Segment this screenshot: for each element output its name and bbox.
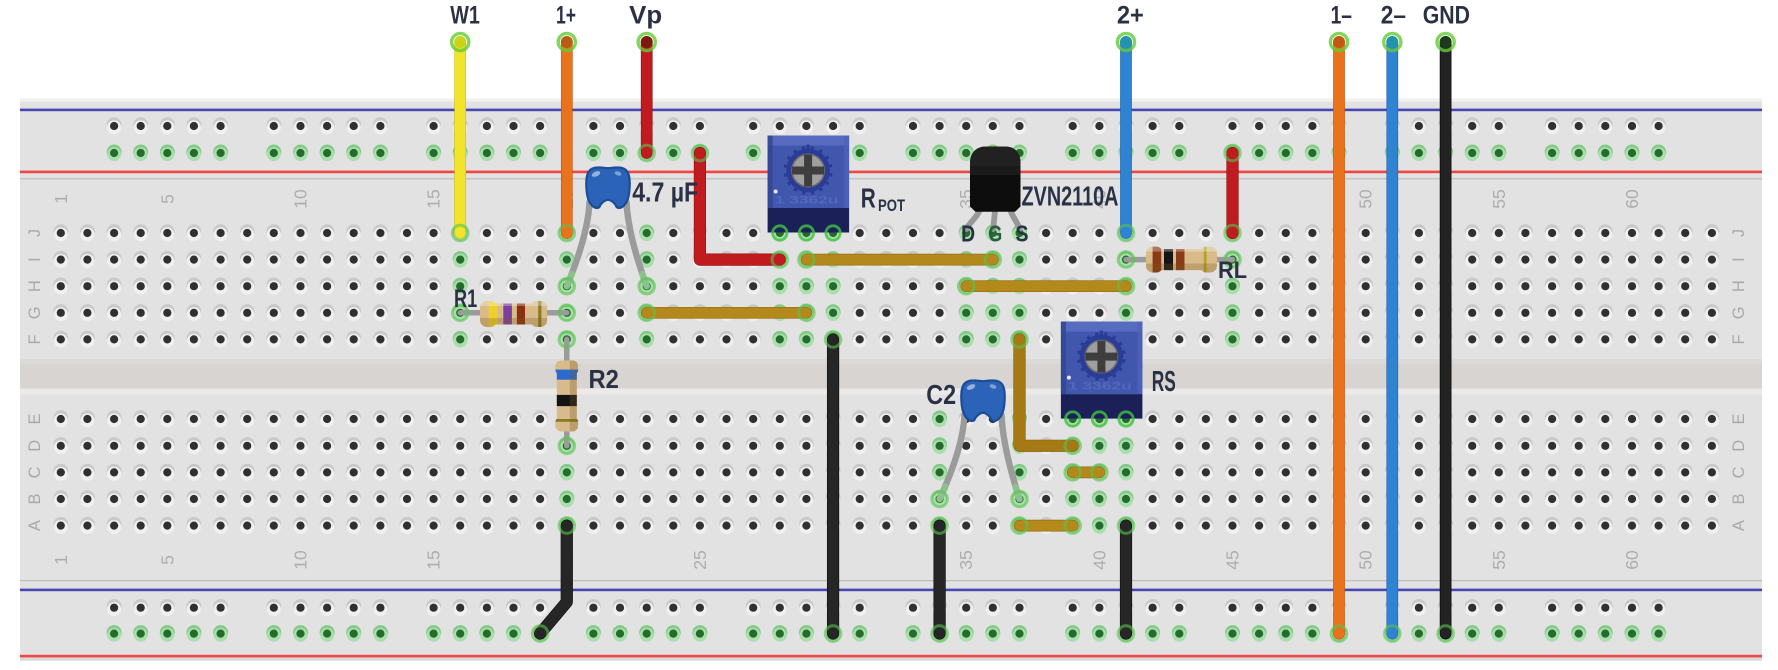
svg-text:15: 15	[424, 189, 444, 208]
svg-text:1 3362u: 1 3362u	[775, 195, 839, 207]
svg-text:RL: RL	[1218, 257, 1247, 284]
svg-text:2+: 2+	[1117, 1, 1144, 29]
svg-text:60: 60	[1622, 189, 1642, 209]
svg-text:55: 55	[1489, 550, 1509, 569]
svg-text:B: B	[1730, 493, 1748, 504]
svg-text:50: 50	[1356, 189, 1376, 209]
svg-text:5: 5	[157, 555, 177, 565]
svg-text:G: G	[26, 306, 44, 319]
svg-text:D: D	[26, 440, 44, 452]
svg-text:F: F	[1730, 334, 1748, 344]
svg-text:C: C	[1730, 466, 1748, 478]
svg-text:35: 35	[956, 550, 976, 569]
svg-text:55: 55	[1489, 189, 1509, 208]
svg-text:G: G	[988, 221, 1002, 247]
svg-text:A: A	[26, 520, 44, 531]
svg-text:R1: R1	[454, 285, 477, 313]
svg-text:1+: 1+	[556, 1, 576, 29]
svg-text:A: A	[1730, 520, 1748, 531]
svg-text:RS: RS	[1152, 366, 1176, 398]
svg-text:R2: R2	[589, 364, 619, 394]
svg-text:15: 15	[424, 550, 444, 569]
svg-text:5: 5	[157, 194, 177, 204]
svg-text:Vp: Vp	[629, 1, 662, 29]
svg-text:1–: 1–	[1331, 1, 1352, 29]
svg-text:R: R	[861, 182, 876, 213]
svg-text:I: I	[1730, 257, 1748, 262]
svg-text:F: F	[26, 334, 44, 344]
svg-text:I: I	[26, 257, 44, 262]
svg-text:10: 10	[291, 189, 311, 209]
svg-text:S: S	[1016, 221, 1029, 247]
svg-text:B: B	[26, 493, 44, 504]
svg-text:D: D	[1730, 440, 1748, 452]
svg-text:ZVN2110A: ZVN2110A	[1022, 181, 1119, 212]
svg-text:J: J	[26, 229, 44, 237]
svg-text:E: E	[1730, 413, 1748, 424]
svg-text:POT: POT	[878, 196, 905, 215]
svg-text:45: 45	[1223, 550, 1243, 569]
svg-text:25: 25	[690, 550, 710, 569]
svg-text:1 3362u: 1 3362u	[1068, 381, 1132, 393]
svg-text:1: 1	[51, 555, 71, 565]
svg-text:40: 40	[1089, 550, 1109, 570]
svg-text:60: 60	[1622, 550, 1642, 570]
svg-text:GND: GND	[1423, 1, 1470, 29]
svg-text:50: 50	[1356, 550, 1376, 570]
svg-text:H: H	[1730, 280, 1748, 292]
svg-text:W1: W1	[450, 1, 480, 29]
svg-text:J: J	[1730, 229, 1748, 237]
svg-text:C2: C2	[926, 379, 956, 410]
svg-text:C: C	[26, 466, 44, 478]
svg-text:2–: 2–	[1381, 1, 1406, 29]
svg-text:1: 1	[51, 194, 71, 204]
svg-text:D: D	[961, 221, 975, 247]
svg-text:4.7 µF: 4.7 µF	[632, 177, 698, 208]
svg-text:E: E	[26, 413, 44, 424]
svg-text:10: 10	[291, 550, 311, 570]
svg-text:H: H	[26, 280, 44, 292]
svg-text:G: G	[1730, 306, 1748, 319]
